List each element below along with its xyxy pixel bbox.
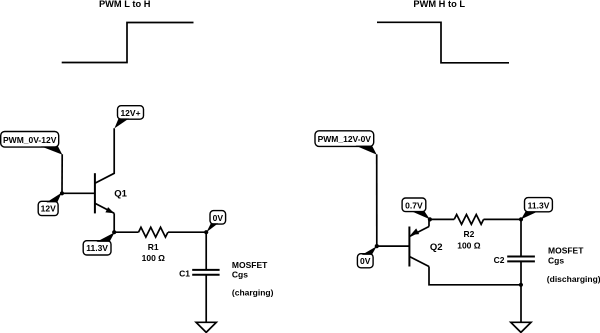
svg-text:Cgs: Cgs <box>548 256 564 266</box>
svg-text:(charging): (charging) <box>232 288 274 298</box>
svg-text:PWM L to H: PWM L to H <box>99 0 151 9</box>
svg-text:12V: 12V <box>41 204 56 214</box>
svg-text:MOSFET: MOSFET <box>232 260 268 270</box>
svg-text:0V: 0V <box>360 256 371 266</box>
svg-text:100 Ω: 100 Ω <box>457 240 481 250</box>
svg-text:100 Ω: 100 Ω <box>142 253 166 263</box>
svg-text:0.7V: 0.7V <box>405 200 423 210</box>
svg-text:PWM H to L: PWM H to L <box>413 0 465 9</box>
svg-text:Q2: Q2 <box>430 242 443 253</box>
svg-text:(discharging): (discharging) <box>547 274 600 284</box>
svg-text:PWM_12V-0V: PWM_12V-0V <box>318 134 372 144</box>
svg-text:R2: R2 <box>463 229 474 239</box>
svg-text:0V: 0V <box>213 213 224 223</box>
svg-text:11.3V: 11.3V <box>86 243 108 253</box>
svg-text:MOSFET: MOSFET <box>548 246 584 256</box>
svg-text:12V+: 12V+ <box>120 108 140 118</box>
svg-text:Q1: Q1 <box>114 188 127 199</box>
svg-text:R1: R1 <box>148 242 159 252</box>
svg-text:C1: C1 <box>179 268 190 278</box>
svg-text:11.3V: 11.3V <box>528 200 550 210</box>
svg-text:Cgs: Cgs <box>232 269 248 279</box>
svg-text:PWM_0V-12V: PWM_0V-12V <box>3 135 57 145</box>
svg-text:C2: C2 <box>494 255 505 265</box>
